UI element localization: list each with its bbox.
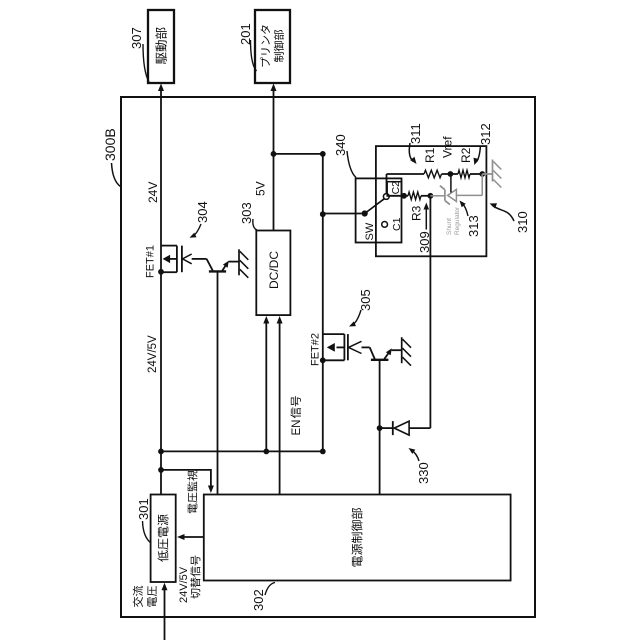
svg-text:R1: R1 [423, 147, 437, 163]
svg-text:300B: 300B [102, 128, 118, 161]
node dot diode junction on Q2 base wire [377, 425, 383, 431]
svg-text:330: 330 [416, 462, 431, 484]
box 303 DC/DC converter [256, 231, 290, 316]
resistor R1 [424, 170, 442, 178]
box 301 low-voltage power supply [151, 495, 176, 583]
ground for Q1 [238, 249, 240, 275]
wire FET#2 rail [322, 154, 324, 452]
svg-text:R2: R2 [459, 147, 473, 163]
transistor Q1 NPN driving FET#1 gate [192, 258, 207, 260]
label AC voltage [133, 586, 143, 607]
wire 24V/5V switch signal [182, 536, 204, 538]
node dot rail-feed branch [158, 449, 164, 455]
box 201 printer control unit [255, 10, 290, 83]
FET#2 gate open arrow [349, 347, 362, 353]
node dot R3 top [401, 193, 407, 199]
node dot R2 bottom [479, 171, 485, 177]
node dot Vref [448, 171, 454, 177]
svg-text:Vref: Vref [441, 136, 455, 158]
box 307 drive unit [148, 10, 174, 83]
FET#2 P-channel MOSFET 305 [323, 359, 345, 361]
wire DCDC power input [265, 322, 267, 452]
switch common contact [362, 210, 368, 216]
svg-text:DC/DC: DC/DC [267, 251, 281, 289]
node dot rail-monitor branch [158, 467, 164, 473]
svg-text:5V: 5V [254, 181, 268, 196]
svg-text:FET#1: FET#1 [145, 245, 157, 278]
svg-text:Regulator: Regulator [454, 206, 461, 235]
contact circle C1 [382, 222, 388, 228]
svg-text:304: 304 [195, 201, 210, 223]
wire R1 to Vref node [442, 173, 459, 175]
svg-text:EN: EN [291, 420, 303, 436]
wire Q2 base from control unit [379, 360, 381, 495]
svg-text:24V/5V: 24V/5V [147, 335, 159, 373]
svg-text:305: 305 [358, 289, 373, 311]
node dot SW branch [320, 211, 326, 217]
wire voltage-monitor [161, 470, 211, 488]
outer frame 300B boundary [121, 97, 535, 617]
node dot FET#2 source [320, 357, 326, 363]
wire diode return to node 309 [429, 196, 431, 428]
wire shunt anode to ground node grey [456, 194, 482, 196]
FET#1 gate open arrow [183, 259, 192, 264]
wire C2 contact to divider chain [386, 174, 388, 194]
compartment box around C2 label [387, 182, 401, 196]
wire 5V rail [273, 97, 275, 231]
wire R2 to ground node [470, 173, 482, 175]
svg-text:309: 309 [417, 231, 432, 253]
arrow 5V into printer control [273, 89, 275, 97]
svg-text:24V: 24V [146, 182, 160, 203]
node dot feed bottom junction [320, 449, 326, 455]
diode 330 [380, 427, 393, 429]
svg-text:340: 340 [333, 134, 348, 156]
svg-text:303: 303 [239, 202, 254, 224]
svg-text:Shunt: Shunt [446, 218, 453, 235]
box 302 power-supply control unit [204, 495, 511, 581]
box 340 switch SW [356, 178, 402, 242]
svg-text:313: 313 [466, 215, 481, 237]
wire Q1 base from control unit [217, 271, 219, 494]
svg-text:310: 310 [515, 211, 530, 233]
wire AC input [164, 588, 166, 640]
ground for Q2 [401, 337, 403, 363]
node dot 5V branch [271, 151, 277, 157]
wire 24V rail [160, 97, 162, 495]
svg-text:FET#2: FET#2 [310, 333, 322, 366]
node dot corner [320, 151, 326, 157]
label voltage monitor [187, 470, 197, 513]
node dot DCDC input branch [263, 449, 269, 455]
wire EN signal [279, 322, 281, 495]
resistor R3 chain from C2 [387, 195, 405, 197]
svg-text:SW: SW [364, 222, 376, 240]
wire shunt reference from Vref node [450, 174, 452, 193]
wire to ground below box 310 [482, 173, 492, 175]
arrow 24V into drive unit [160, 89, 162, 97]
FET#1 P-channel MOSFET 304 [161, 271, 177, 273]
svg-text:301: 301 [136, 498, 151, 520]
svg-text:312: 312 [478, 123, 493, 145]
svg-text:C2: C2 [390, 181, 402, 195]
wire 24V/5V feed vertical [161, 450, 323, 452]
contact circle C2 [383, 194, 389, 200]
box 310 regulator block [376, 146, 487, 256]
wire 5V branch down [274, 153, 323, 155]
switch arm to C2 [365, 199, 385, 214]
shunt regulator 313 symbol [430, 195, 445, 197]
ground for divider grey [492, 160, 494, 182]
node dot FET#1 on 24V rail [158, 269, 164, 275]
wire switch common to rail [323, 213, 362, 215]
svg-text:C1: C1 [391, 217, 403, 231]
svg-text:302: 302 [251, 589, 266, 611]
transistor Q2 NPN driving FET#2 gate [362, 346, 370, 348]
svg-text:24V/5V: 24V/5V [178, 566, 190, 603]
svg-text:307: 307 [129, 27, 144, 49]
svg-text:311: 311 [408, 123, 423, 144]
resistor R2 [458, 170, 470, 178]
node dot 309 [428, 193, 434, 199]
svg-text:R3: R3 [410, 205, 424, 221]
